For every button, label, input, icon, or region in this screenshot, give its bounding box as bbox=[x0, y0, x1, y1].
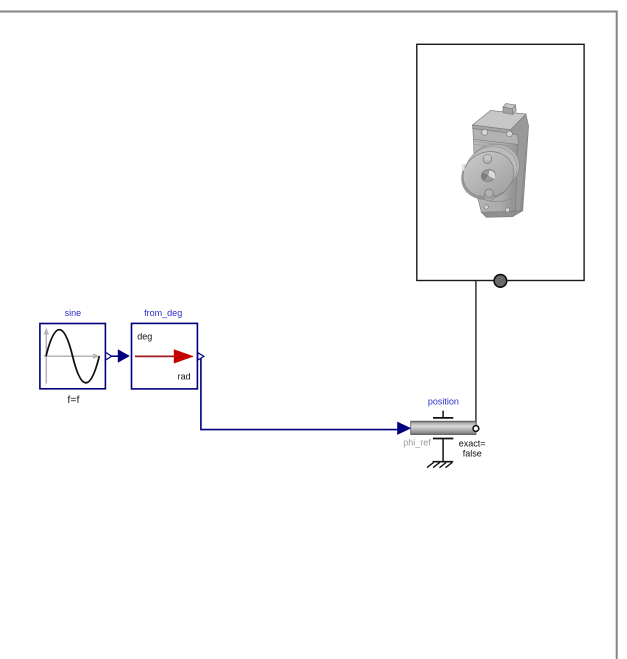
svg-text:sine: sine bbox=[65, 308, 82, 318]
svg-text:position: position bbox=[428, 397, 459, 407]
svg-text:false: false bbox=[463, 448, 482, 458]
svg-text:exact=: exact= bbox=[459, 439, 486, 449]
svg-text:phi_ref: phi_ref bbox=[403, 438, 431, 448]
svg-text:from_deg: from_deg bbox=[144, 308, 182, 318]
svg-text:deg: deg bbox=[137, 332, 152, 342]
svg-text:f=f: f=f bbox=[67, 395, 79, 406]
svg-text:rad: rad bbox=[178, 372, 191, 382]
